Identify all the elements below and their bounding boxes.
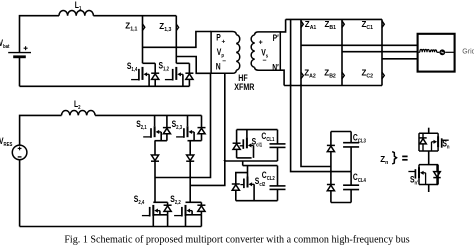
- legend bottom stub: [428, 185, 430, 193]
- wire VRES top lead: [20, 115, 62, 145]
- source VRES: [12, 145, 27, 160]
- label CCL4: [353, 172, 366, 184]
- label P': [273, 33, 279, 43]
- transistor S1,4: [143, 62, 156, 64]
- grid interface box: [418, 34, 455, 72]
- label N': [272, 62, 279, 72]
- wire phase B output: [342, 51, 418, 53]
- wire bridge2 top rail: [95, 114, 201, 116]
- label Vbat: [0, 38, 10, 50]
- label CCL2: [262, 170, 275, 182]
- series diode of leg2 (pointing down): [189, 141, 191, 155]
- transformer primary winding box: [211, 32, 236, 74]
- wire VRES bottom lead: [19, 160, 21, 227]
- wire leg2 down to S2,2: [189, 161, 191, 202]
- legend top stub: [428, 128, 430, 134]
- label Sn: [442, 138, 449, 150]
- wire bridge1 mid to transformer P: [143, 32, 212, 48]
- inductor L1: [59, 11, 93, 16]
- wire bus S1 from top rail down to clamp cell4: [291, 19, 352, 171]
- wire clamp cell3/4 left leg: [330, 167, 332, 172]
- clamp cell2 link and top edge: [242, 161, 244, 166]
- wire phase C output: [382, 58, 418, 60]
- transistor Sn': [418, 165, 420, 185]
- wire S2,2 cell bottom and legs: [186, 214, 202, 216]
- diode of clamp cell1: [236, 130, 238, 143]
- legend equals sign: [402, 155, 407, 157]
- label S2,4: [134, 194, 145, 206]
- label L2: [74, 99, 81, 111]
- label Sn': [410, 174, 419, 186]
- svg-text:−: −: [262, 58, 266, 65]
- label HF XFMR: [238, 72, 247, 83]
- wire bridge1 leg B to transformer N: [176, 57, 211, 74]
- transistor S2,1: [154, 115, 156, 126]
- battery Vbat: [8, 52, 31, 54]
- transformer secondary winding box: [255, 32, 281, 70]
- legend cell Sn box: [419, 132, 438, 134]
- legend middle stub: [428, 151, 430, 165]
- legend cell Sn' box: [419, 164, 438, 166]
- wire P' lead to matrix top rail: [280, 19, 285, 32]
- label P+: [216, 33, 221, 43]
- label CCL1: [261, 131, 274, 143]
- label S1,2: [159, 60, 170, 72]
- wire top rail to bridge1: [93, 15, 176, 17]
- wire bridge1 bottom rail: [20, 85, 190, 87]
- svg-text:P′: P′: [273, 33, 279, 43]
- diode of S2,1: [166, 115, 168, 127]
- clamp cell3 top edge: [331, 131, 351, 133]
- transistor Scl2: [247, 166, 249, 177]
- wire S2,4 cell bottom and legs: [153, 214, 167, 216]
- wire phase A output: [301, 44, 418, 46]
- wire bus P1 down to bridge2 mid: [155, 73, 211, 177]
- switch leg ZC1/ZC2: [381, 19, 383, 85]
- grid ac source: [439, 49, 445, 55]
- label VRES: [0, 136, 13, 148]
- svg-text:+: +: [222, 39, 226, 46]
- series diode of leg1 (pointing down): [154, 141, 156, 155]
- grid filter inductor 2: [430, 50, 436, 52]
- diode of S2,4: [167, 202, 169, 205]
- capacitor CCL1: [237, 129, 278, 131]
- svg-text:Grid: Grid: [462, 49, 474, 56]
- label L1: [75, 0, 82, 12]
- diode of clamp cell4: [330, 172, 332, 185]
- transistor Scl1: [246, 130, 248, 138]
- wire clamp cell4 bottom edge: [331, 202, 351, 204]
- label CCL3: [353, 133, 366, 145]
- capacitor CCL2: [277, 166, 279, 186]
- wire bus P2 down to bridge2: [190, 73, 225, 185]
- svg-text:+: +: [259, 40, 263, 47]
- svg-text:XFMR: XFMR: [234, 81, 254, 92]
- wire clamp cell2 bottom edge: [236, 200, 278, 202]
- svg-text:Fig. 1 Schematic of proposed m: Fig. 1 Schematic of proposed multiport c…: [64, 235, 409, 246]
- switch leg ZA1/ZA2: [301, 19, 331, 166]
- transistor S2,3: [187, 115, 189, 126]
- wire to grid source: [437, 51, 440, 53]
- diode of clamp cell3: [330, 132, 332, 146]
- wire clamp cell1 inner bottom edge: [237, 157, 252, 159]
- svg-text:−: −: [222, 58, 226, 65]
- label S2,2: [170, 194, 181, 206]
- label Scl1: [252, 137, 263, 149]
- legend brace: [392, 152, 396, 164]
- switch Z1,3 leg: [175, 16, 177, 64]
- transistor S2,2: [186, 201, 202, 203]
- diode of S2,3: [201, 115, 203, 127]
- label Scl2: [255, 176, 266, 188]
- svg-text:N′: N′: [272, 62, 279, 72]
- wire matrix bottom rail: [284, 85, 382, 87]
- label Vp: [217, 47, 224, 59]
- switch Z1,1 leg: [142, 16, 144, 64]
- switch leg ZB1/ZB2: [341, 19, 343, 85]
- wire leg1 down to S2,4: [154, 161, 156, 202]
- wire matrix top rail: [286, 18, 382, 20]
- wire grid source to box edge: [445, 51, 454, 53]
- inductor L2: [62, 111, 96, 116]
- svg-text:N: N: [216, 61, 221, 71]
- label N-: [216, 61, 221, 71]
- wire battery top lead to top rail: [20, 16, 60, 53]
- label Vs: [261, 48, 268, 60]
- diode of Sn cell: [422, 133, 424, 138]
- diode of S2,2: [200, 202, 202, 205]
- transistor S2,4: [153, 201, 167, 203]
- diode of S1,4: [154, 63, 156, 73]
- wire bus P2 branch to clamp cells: [225, 160, 278, 162]
- diode of S1,2: [188, 63, 190, 73]
- label S2,1: [136, 119, 147, 131]
- label S2,3: [172, 119, 183, 131]
- transistor S1,2: [176, 62, 189, 64]
- grid filter inductor 1: [419, 51, 420, 53]
- wire S2,3 cell bottom: [188, 140, 202, 142]
- wire S2,1 cell bottom: [155, 140, 167, 142]
- diode of Sn' cell (pointing down): [436, 165, 438, 172]
- label S1,4: [127, 61, 138, 73]
- diode of clamp cell2: [232, 183, 240, 185]
- wire N' lead to matrix bottom rail: [280, 70, 284, 85]
- capacitor CCL4: [350, 172, 352, 185]
- transistor Sn: [437, 133, 439, 151]
- wire bridge2 bottom rail: [20, 226, 202, 228]
- capacitor CCL3: [350, 132, 352, 143]
- wire battery bottom lead: [19, 57, 21, 87]
